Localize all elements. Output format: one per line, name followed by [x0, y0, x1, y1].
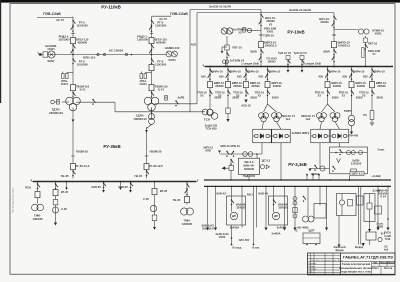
wire arrester stub R: [146, 72, 152, 74]
svg-text:2хЦН-120ТСН-630: 2хЦН-120ТСН-630: [205, 124, 218, 131]
wire 35f1: [37, 182, 39, 204]
pt box 1: [286, 56, 290, 60]
feeder10-2 QS upper: [245, 69, 248, 75]
junction dc drop 4: [265, 186, 267, 188]
wire dc drop 5: [284, 186, 286, 227]
title block col 0: [310, 253, 312, 275]
wire VT bay arr: [221, 47, 223, 51]
wire 110kV feeder R upper: [151, 17, 153, 98]
svg-text:ВНЧ-10-20/630: ВНЧ-10-20/630: [319, 17, 330, 24]
incoming A QS2: [259, 20, 262, 26]
wire pt understub 2: [301, 67, 303, 71]
35f2 arrow: [54, 223, 57, 226]
wire feeder10-1 d2: [227, 97, 229, 108]
wire cellD out: [369, 222, 371, 230]
wire branch VT B: [334, 29, 358, 31]
svg-text:НАМИ-110: НАМИ-110: [165, 46, 180, 50]
voltage transformer TV1: [48, 51, 55, 58]
svg-text:Утв.: Утв.: [309, 271, 314, 273]
pt dot 1: [287, 66, 289, 68]
svg-text:ВМП-10-20/630: ВМП-10-20/630: [250, 81, 261, 88]
converter cabinet box: [239, 158, 260, 174]
disconnector QS L5: [72, 58, 75, 64]
svg-text:ГАБИБ1.АГ.717ДП.038.ПЗ: ГАБИБ1.АГ.717ДП.038.ПЗ: [343, 254, 393, 259]
feeder10-1 lower box: [226, 108, 230, 114]
wire head L: [37, 16, 73, 18]
bus end hook 10kV left: [203, 64, 205, 66]
title block col 4: [340, 253, 342, 275]
svg-text:ВМПЭ-10-1000/31,5: ВМПЭ-10-1000/31,5: [338, 41, 351, 48]
wire rect0 out: [261, 143, 263, 154]
station transformer TSN: [202, 109, 213, 115]
svg-text:+3,3кВ: +3,3кВ: [371, 174, 380, 178]
3.3kV busbar minus: [204, 185, 391, 187]
svg-text:ТВ-35: ТВ-35: [134, 174, 142, 178]
cell1 circle: [272, 212, 279, 219]
pt dot 0: [225, 66, 227, 68]
feeder10-3 QS upper: [267, 69, 270, 75]
35f2 circle: [53, 207, 59, 213]
title block col 3: [332, 253, 334, 275]
svg-text:ВАБ-2х43-2500/30-Л: ВАБ-2х43-2500/30-Л: [202, 224, 215, 231]
wire feeder10-4 split b: [328, 104, 336, 112]
svg-text:ВАБ-49-3200/30: ВАБ-49-3200/30: [278, 203, 288, 210]
wire rect3 out: [339, 143, 341, 147]
wire dc double b: [360, 186, 362, 236]
ground feeder10-6: [370, 123, 374, 125]
feeder10-0 QS upper2: [208, 74, 211, 80]
dc machine a: [303, 216, 309, 222]
cellD arrow: [368, 229, 371, 232]
title block r v2: [386, 262, 388, 267]
wire T2 LV out: [155, 103, 197, 105]
cell1 tap: [273, 186, 275, 188]
svg-text:ТФЗМ-35: ТФЗМ-35: [76, 150, 89, 154]
dc feeder cell 2: [337, 194, 357, 216]
wire incoming B drop: [333, 13, 335, 67]
wire dc double a: [358, 186, 360, 236]
feeder10-1 load arrow: [226, 119, 229, 122]
35tap1 arrow: [129, 190, 132, 193]
dc load arrow 5: [325, 228, 328, 231]
wire feeder10-5 d2: [351, 97, 353, 115]
wire break symbol a: [97, 53, 99, 55]
junction feeder10-4: [327, 66, 329, 68]
feeder10-5 QS upper: [351, 69, 354, 75]
wire feeder10-6 drop: [371, 67, 373, 98]
title block r h2: [372, 265, 396, 267]
surge arresters R: [140, 72, 147, 79]
aux circle A: [247, 28, 251, 32]
feeder10-1 QS lower: [227, 90, 230, 96]
wire feeder10-1 d3: [227, 114, 229, 119]
bus end hook link left: [38, 52, 40, 54]
earthing transformer TM: [149, 114, 155, 125]
junction dc drop 3: [256, 186, 258, 188]
wire dc drop 3: [256, 186, 258, 227]
generator circle G: [248, 152, 253, 157]
feeder10-6 QS lower: [371, 90, 374, 96]
wire TSN branch: [189, 111, 206, 113]
dc load arrow 6: [376, 228, 379, 231]
title block mid sep: [340, 253, 342, 275]
wire pt stub 1: [287, 60, 289, 67]
junction 35tap1: [130, 181, 132, 183]
rectifier unit VD3 ПВЭ-5АУ1: [330, 129, 349, 143]
stub wire 0: [306, 175, 308, 180]
dc right box: [366, 232, 376, 240]
35extra0 arrow: [65, 188, 68, 190]
title block row 5: [308, 269, 341, 271]
disconnector on LV route R: [175, 100, 178, 106]
dc aux inner: [303, 237, 320, 239]
VT bay circles: [221, 28, 233, 34]
junction dc a2: [231, 237, 233, 239]
wire 35f4: [186, 182, 188, 205]
right arm QS: [314, 165, 317, 171]
arrow T2 mv: [145, 130, 148, 133]
arrow T1 mv: [72, 120, 75, 123]
B branch box: [363, 38, 367, 42]
junction dc b0: [253, 186, 255, 188]
feeder10-2 breaker: [244, 82, 249, 88]
svg-text:ОПН-110: ОПН-110: [83, 55, 96, 59]
wire feeder10-4 split a: [322, 104, 328, 112]
svg-text:ТСН: ТСН: [204, 118, 210, 122]
right arm circle: [320, 166, 325, 171]
tick 35 R: [145, 155, 149, 157]
circuit breaker QL: [71, 38, 76, 44]
svg-text:Листов: Листов: [384, 267, 393, 270]
motor circle M: [243, 152, 248, 157]
scan top black bar: [0, 0, 400, 3]
dc load arrow 3: [283, 228, 286, 231]
incoming A QS1: [260, 14, 263, 20]
disconnector QS R1: [151, 20, 154, 26]
junction 35f4: [186, 181, 188, 183]
dc aux dot a: [306, 244, 308, 246]
title block row 4: [308, 266, 341, 268]
feeder10-2 QS lower: [245, 90, 248, 96]
svg-text:2хПВЭ-3МУ1: 2хПВЭ-3МУ1: [292, 131, 310, 135]
wire 35tap1: [130, 182, 132, 191]
pt circles 0: [223, 60, 229, 63]
svg-text:Лит.: Лит.: [373, 261, 378, 264]
svg-text:ВТ-35-12,5: ВТ-35-12,5: [75, 164, 90, 168]
VT bay box: [225, 45, 229, 50]
wire 35f3: [154, 182, 156, 228]
wire dc double cont a: [358, 236, 360, 245]
col295 circle c: [293, 214, 297, 218]
junction feeder10-3: [267, 66, 269, 68]
svg-text:Лист: Лист: [373, 267, 379, 270]
wire feeder10-3 split a: [264, 104, 268, 112]
incoming B QS3: [333, 49, 336, 55]
35f3 breaker: [152, 189, 157, 195]
disconnector QS L4: [71, 49, 74, 55]
svg-text:ВМПЭ-10-1000/31,5: ВМПЭ-10-1000/31,5: [264, 41, 277, 48]
svg-text:АС-150/24: АС-150/24: [109, 49, 124, 53]
wire LV top run A: [190, 9, 261, 11]
wire LV route down: [114, 102, 116, 112]
title block r v1: [379, 262, 381, 267]
svg-text:2хАСБ-10 3х240: 2хАСБ-10 3х240: [209, 5, 231, 9]
junction 35extra0: [66, 181, 68, 183]
shunt circle a: [260, 165, 264, 169]
3.3kV busbar plus: [204, 179, 391, 181]
wire feeder10-0 drop: [209, 67, 211, 98]
svg-text:ВАБ-49-3200/30: ВАБ-49-3200/30: [236, 203, 246, 210]
wire LV route right: [115, 111, 190, 113]
svg-text:ОПН-110У1: ОПН-110У1: [139, 79, 147, 86]
pt underarrow 2: [301, 70, 304, 73]
cabinet circle b: [351, 151, 355, 155]
wire B branch drop: [364, 36, 366, 67]
shunt triangle: [266, 165, 269, 169]
breaker box R3: [149, 65, 154, 71]
junction dc drop 1: [215, 186, 217, 188]
wire dc cluster2: [319, 186, 321, 205]
35f4 QS2: [185, 189, 188, 195]
dc aux box: [303, 233, 320, 244]
svg-text:ВМП-10-20/630: ВМП-10-20/630: [376, 81, 387, 88]
svg-text:Масшт.: Масшт.: [387, 261, 396, 264]
cabinet inner line: [330, 152, 367, 154]
tick 35 L: [71, 155, 75, 157]
wire 110kV link: [40, 54, 152, 56]
dc right circle: [378, 237, 382, 241]
feeder10-4 breaker: [325, 82, 330, 88]
header QS b: [231, 151, 234, 157]
wire dc drop 7: [326, 186, 328, 227]
wire dc drop 8: [377, 186, 379, 227]
svg-text:ОПН-110У1: ОПН-110У1: [61, 79, 69, 86]
feeder10-4 QS upper2: [325, 74, 328, 80]
TV1 cross 2: [49, 52, 54, 57]
breaker box R2: [149, 85, 154, 91]
wire break symbol b: [103, 53, 105, 55]
feeder10-4 QS upper: [327, 69, 330, 75]
junction A bus: [260, 66, 262, 68]
title block outer: [308, 253, 396, 275]
breaker box L2: [71, 85, 76, 91]
disconnector QS L3: [72, 44, 75, 50]
svg-text:ВМП-10-20/630: ВМП-10-20/630: [355, 81, 366, 88]
aux box right of panel drop: [351, 169, 357, 175]
disconnector 35 L: [72, 170, 75, 176]
disconnector on LV route: [92, 99, 95, 105]
dc feeder cell 3: [364, 194, 375, 222]
wire dc drop 2: [241, 186, 243, 227]
svg-text:БВ-3,3ВАБ-49-3200/30: БВ-3,3ВАБ-49-3200/30: [243, 160, 254, 171]
col295 circle b: [293, 201, 297, 205]
header QS a: [226, 151, 229, 157]
pt slash 2: [301, 59, 304, 65]
wire rect2 out: [319, 143, 321, 169]
cabinet dot a: [335, 152, 337, 154]
scan left dark edge: [0, 0, 1, 103]
35f1 breaker: [35, 192, 40, 198]
wire panel down b: [349, 176, 351, 180]
35extra1 arrow: [119, 188, 122, 190]
junction B bus: [333, 66, 335, 68]
svg-text:Т.контр.: Т.контр.: [309, 269, 317, 271]
surge arresters L: [62, 72, 69, 79]
title block doc sep: [341, 261, 396, 263]
wire bypass down: [230, 160, 232, 166]
wire dc drop 9: [387, 186, 389, 227]
svg-text:РНДЗ-1-110/1000: РНДЗ-1-110/1000: [137, 35, 149, 42]
incoming breaker B: [332, 42, 337, 48]
cell2 wire2: [341, 205, 343, 215]
svg-text:2 сек.825В: 2 сек.825В: [377, 222, 384, 229]
wire dc double cont b: [360, 236, 362, 245]
junction dc drop 7: [326, 186, 328, 188]
wire dc drop 4: [265, 186, 267, 227]
svg-text:РНДЗ-1-110/1000: РНДЗ-1-110/1000: [58, 35, 70, 42]
disconnector QS L8: [72, 92, 75, 98]
wire pt stub 0: [225, 63, 227, 67]
cell3 inner line: [369, 194, 371, 222]
stub dot 0: [306, 174, 308, 176]
box at link left: [43, 52, 48, 57]
circuit breaker QR: [149, 38, 154, 44]
cell0 tap: [231, 186, 233, 188]
svg-text:ПЭВ-110кВ: ПЭВ-110кВ: [43, 12, 61, 16]
wire LV top run B: [197, 12, 334, 14]
dc panel box: [357, 196, 364, 205]
transformer T L three-winding: [66, 97, 81, 111]
feeder10-3 QS lower: [267, 90, 270, 96]
pt slash 1: [287, 59, 290, 65]
stub dot 2: [318, 174, 320, 176]
title block row 1: [308, 258, 341, 260]
svg-text:ТЛ-10УЗ1000/5: ТЛ-10УЗ1000/5: [266, 57, 277, 64]
cell0 circle: [230, 212, 237, 219]
incoming B QS4: [332, 56, 335, 62]
dc cluster QS: [303, 196, 306, 202]
dc load arrow 1: [214, 228, 217, 231]
svg-text:ВГБУ-11040/2000: ВГБУ-11040/2000: [155, 38, 168, 45]
wire link right stub: [152, 54, 167, 56]
cabinet slash2: [332, 166, 335, 172]
VT bay QS: [226, 52, 229, 58]
incoming A QS4: [259, 56, 262, 62]
title block r h1: [372, 263, 396, 265]
voltage transformer TV2: [166, 51, 177, 57]
wire feeder10-1 drop: [227, 67, 229, 98]
terminal dc b: [253, 244, 255, 246]
wire dc drop cont b: [253, 186, 255, 244]
wire bypass left: [225, 167, 229, 169]
transformer T R three-winding: [144, 97, 159, 111]
feeder10-0 QS upper: [209, 69, 212, 75]
incoming A QS3: [260, 49, 263, 55]
dc machine b: [308, 216, 314, 222]
right feeder box: [375, 206, 382, 214]
junction hb: [248, 179, 250, 181]
wire pt stub 2: [301, 60, 303, 67]
surge arrester FV L: [57, 100, 60, 105]
junction dc drop 8: [377, 186, 379, 188]
wire feeder10-6 d3: [371, 120, 373, 124]
fuse tick B: [332, 34, 336, 36]
wire T1 LV out: [76, 101, 115, 103]
cell2 circle: [339, 200, 344, 205]
dc load arrow 2: [264, 228, 267, 231]
disconnector QS L1: [72, 20, 75, 26]
junction rect1 bus: [280, 179, 282, 181]
wire 110kV feeder L upper: [72, 17, 74, 98]
wire feeder10-4 tb: [335, 122, 340, 129]
junction dc drop 0: [207, 186, 209, 188]
feeder10-1 QS upper2: [226, 74, 229, 80]
converter cabinet right: [330, 147, 368, 174]
feeder10-1 QS upper: [227, 69, 230, 75]
wire VT bay arr2: [222, 46, 227, 48]
title block r v3: [380, 266, 382, 275]
cell1 wire: [273, 186, 275, 212]
title block row 0: [308, 255, 341, 257]
wire T2 MV down: [151, 108, 153, 114]
stub dot 1: [312, 174, 314, 176]
cabinet circle a: [347, 151, 351, 155]
incoming B QS2: [332, 22, 335, 28]
wire 35extra1: [120, 182, 122, 188]
junction 35f3: [154, 181, 156, 183]
junction hb4: [349, 179, 351, 181]
right arm arrow: [309, 169, 312, 172]
cell2 wire: [341, 194, 343, 200]
10kV busbar: [205, 66, 393, 68]
junction dc drop 2: [241, 186, 243, 188]
wire 3kV header run: [220, 153, 263, 155]
svg-text:ВМП-10-20/630: ВМП-10-20/630: [331, 81, 342, 88]
bus end hook 35 right: [196, 179, 198, 181]
svg-text:РУ-110кВ: РУ-110кВ: [101, 5, 121, 10]
surge arrester A: [243, 28, 246, 33]
rectifier unit VD1 ПВЭ-5АУ1: [272, 129, 291, 143]
svg-text:Пров.: Пров.: [309, 266, 315, 268]
wire pt understub 1: [287, 67, 289, 71]
35f3 circle: [150, 205, 156, 211]
junction feeder10-6: [371, 66, 373, 68]
cabinet label box: [350, 172, 364, 176]
junction dc drop 9: [387, 186, 389, 188]
junction L on link: [72, 54, 74, 56]
svg-text:УХЛ1: УХЛ1: [168, 58, 176, 62]
dc load arrow 7: [386, 228, 389, 231]
junction R on link: [151, 54, 153, 56]
svg-text:ВМП-10-20/630: ВМП-10-20/630: [232, 81, 243, 88]
surge arrester FV R: [165, 96, 168, 101]
VT bay arrow: [221, 51, 224, 53]
junction 35extra1: [120, 181, 122, 183]
35f2 breaker: [53, 190, 58, 196]
junction 35tap0: [103, 181, 105, 183]
terminal dc a: [231, 244, 233, 246]
rectifier unit VD0 ПВЭ-5АУ1: [253, 129, 272, 143]
svg-text:ВМП-10-20/630: ВМП-10-20/630: [271, 81, 282, 88]
junction 35f2: [55, 181, 57, 183]
tick R: [150, 33, 154, 35]
wire dc drop 6: [294, 186, 296, 227]
feeder10-4 QS lower: [327, 90, 330, 96]
35kV busbar: [33, 181, 196, 183]
wire feeder10-3 split b: [268, 104, 277, 112]
header left arrow: [218, 151, 221, 154]
wire cellC out a: [338, 216, 340, 245]
